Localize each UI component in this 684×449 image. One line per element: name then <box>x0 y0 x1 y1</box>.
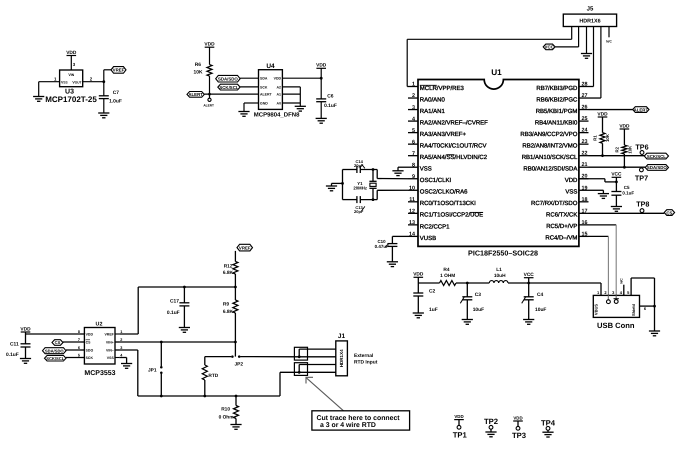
svg-text:MCP3553: MCP3553 <box>84 370 115 377</box>
svg-text:ALERT: ALERT <box>260 93 273 97</box>
svg-text:TP7: TP7 <box>635 173 648 182</box>
svg-text:USB Conn: USB Conn <box>597 321 635 330</box>
svg-text:SCK/SCL: SCK/SCL <box>46 356 65 361</box>
svg-text:8: 8 <box>412 162 415 168</box>
svg-text:C2: C2 <box>429 289 436 295</box>
svg-text:VCC: VCC <box>545 45 555 50</box>
svg-text:a 3 or 4 wire RTD: a 3 or 4 wire RTD <box>320 422 376 429</box>
svg-text:RB1/AN10/SCK/SCL: RB1/AN10/SCK/SCL <box>522 154 578 161</box>
svg-text:HDR1X6: HDR1X6 <box>579 19 600 25</box>
svg-text:6.8K: 6.8K <box>223 309 234 315</box>
svg-text:0.1uF: 0.1uF <box>324 103 337 109</box>
svg-text:1.0uF: 1.0uF <box>109 99 122 105</box>
svg-text:24: 24 <box>582 128 588 134</box>
svg-text:PIC18F2550–SOIC28: PIC18F2550–SOIC28 <box>468 248 538 257</box>
svg-text:VDD: VDD <box>274 77 282 81</box>
svg-text:VIN: VIN <box>68 73 74 77</box>
svg-text:ALERT: ALERT <box>634 107 649 112</box>
svg-text:10K: 10K <box>194 69 203 75</box>
svg-text:SDO: SDO <box>86 348 94 352</box>
svg-text:J1: J1 <box>338 333 346 340</box>
svg-text:12: 12 <box>409 209 415 215</box>
svg-text:15: 15 <box>582 231 588 237</box>
svg-text:C7: C7 <box>113 90 120 96</box>
svg-text:J5: J5 <box>587 6 594 13</box>
svg-text:RC6/TX/CK: RC6/TX/CK <box>546 212 577 219</box>
svg-text:10K: 10K <box>627 145 632 154</box>
svg-text:4: 4 <box>412 116 415 122</box>
svg-text:RA1/AN1: RA1/AN1 <box>420 108 446 115</box>
svg-text:10uF: 10uF <box>473 307 484 313</box>
svg-text:C17: C17 <box>170 298 179 304</box>
svg-text:ALERT: ALERT <box>203 103 214 107</box>
svg-text:16: 16 <box>582 220 588 226</box>
svg-text:TP8: TP8 <box>636 199 649 208</box>
svg-text:0.1uF: 0.1uF <box>167 310 180 316</box>
svg-text:U1: U1 <box>491 68 502 77</box>
svg-text:25: 25 <box>582 116 588 122</box>
svg-text:1uF: 1uF <box>429 307 438 313</box>
svg-text:VREF: VREF <box>239 245 251 250</box>
svg-text:10uF: 10uF <box>535 307 546 313</box>
svg-text:6: 6 <box>412 139 415 145</box>
svg-text:VDD: VDD <box>454 414 463 419</box>
svg-text:MCP1702T-25: MCP1702T-25 <box>45 95 97 104</box>
svg-text:13: 13 <box>409 220 415 226</box>
svg-text:R1: R1 <box>592 135 597 141</box>
svg-text:C4: C4 <box>537 292 544 298</box>
svg-text:RC4/D–/VM: RC4/D–/VM <box>545 235 577 242</box>
svg-text:17: 17 <box>582 208 588 214</box>
svg-text:CS: CS <box>86 340 92 344</box>
svg-text:OSC2/CLKO/RA6: OSC2/CLKO/RA6 <box>420 189 468 196</box>
svg-text:18: 18 <box>582 197 588 203</box>
svg-text:RC7/RX/DT/SDO: RC7/RX/DT/SDO <box>531 200 578 207</box>
svg-text:VREF: VREF <box>113 68 125 73</box>
svg-text:0.1uF: 0.1uF <box>622 191 634 196</box>
svg-text:OSC1/CLKI: OSC1/CLKI <box>420 177 452 184</box>
svg-text:VSS: VSS <box>420 166 432 173</box>
svg-text:N/C: N/C <box>606 39 612 43</box>
svg-text:0.1uF: 0.1uF <box>6 352 19 358</box>
svg-text:A1: A1 <box>277 93 282 97</box>
svg-text:A0: A0 <box>277 101 282 105</box>
svg-text:RB7/KBI3/PGD: RB7/KBI3/PGD <box>536 85 578 92</box>
svg-text:10: 10 <box>409 185 415 191</box>
svg-text:SCK/SCL: SCK/SCL <box>219 85 238 90</box>
svg-text:RB3/AN9/CCP2/VPO: RB3/AN9/CCP2/VPO <box>520 131 577 138</box>
svg-text:VSS: VSS <box>61 80 68 84</box>
svg-text:JP2: JP2 <box>235 361 244 367</box>
svg-text:R12: R12 <box>224 263 233 269</box>
svg-text:26: 26 <box>582 105 588 111</box>
svg-text:RB6/KBI2/PGC: RB6/KBI2/PGC <box>536 96 578 103</box>
svg-text:CS: CS <box>55 340 61 345</box>
svg-text:VDD: VDD <box>86 332 94 336</box>
svg-text:19: 19 <box>582 185 588 191</box>
svg-text:HDR1X4: HDR1X4 <box>339 349 344 367</box>
svg-text:RB5/KBI1/PGM: RB5/KBI1/PGM <box>536 108 578 115</box>
svg-text:Cut trace here to connect: Cut trace here to connect <box>317 415 401 422</box>
svg-text:SCK: SCK <box>260 85 268 89</box>
svg-text:21: 21 <box>582 162 588 168</box>
svg-text:RTD Input: RTD Input <box>354 360 378 366</box>
svg-text:27: 27 <box>582 93 588 99</box>
svg-text:RA3/AN3/VREF+: RA3/AN3/VREF+ <box>420 131 467 138</box>
svg-text:22: 22 <box>582 151 588 157</box>
svg-text:C6: C6 <box>327 94 334 100</box>
svg-text:External: External <box>354 353 374 359</box>
svg-text:CS: CS <box>666 210 672 215</box>
svg-text:R10: R10 <box>221 406 230 412</box>
svg-text:VUSB: VUSB <box>420 235 436 242</box>
svg-text:9: 9 <box>412 174 415 180</box>
svg-text:7: 7 <box>412 151 415 157</box>
svg-text:SCK: SCK <box>86 356 94 360</box>
svg-text:N/C: N/C <box>620 278 624 284</box>
svg-text:VIN+: VIN+ <box>106 340 114 344</box>
svg-text:10K: 10K <box>605 133 610 142</box>
svg-text:SDA/SDO: SDA/SDO <box>218 76 238 81</box>
svg-text:A2: A2 <box>277 85 282 89</box>
svg-text:23: 23 <box>582 139 588 145</box>
svg-text:ALERT: ALERT <box>188 92 203 97</box>
svg-text:VDD: VDD <box>565 177 578 184</box>
svg-text:RC5/D+/VP: RC5/D+/VP <box>546 223 577 230</box>
svg-text:R6: R6 <box>195 62 202 68</box>
svg-text:TP6: TP6 <box>635 142 648 151</box>
svg-text:11: 11 <box>409 197 415 203</box>
svg-text:RC0/T1OSO/T13CKI: RC0/T1OSO/T13CKI <box>420 200 476 207</box>
svg-text:RB2/AN8/INT2/VMO: RB2/AN8/INT2/VMO <box>522 142 577 149</box>
svg-text:14: 14 <box>409 232 415 238</box>
svg-text:C5: C5 <box>624 185 630 190</box>
svg-text:RA4/T0CKI/C1OUT/RCV: RA4/T0CKI/C1OUT/RCV <box>420 143 487 150</box>
svg-text:RA2/AN2/VREF–/CVREF: RA2/AN2/VREF–/CVREF <box>420 119 488 126</box>
svg-text:28: 28 <box>582 82 588 88</box>
svg-text:VBUS: VBUS <box>594 304 599 315</box>
svg-text:VSS: VSS <box>565 189 577 196</box>
svg-text:0 Ohm: 0 Ohm <box>219 414 234 420</box>
svg-text:VOUT: VOUT <box>72 80 81 84</box>
svg-text:SCK/SCL: SCK/SCL <box>647 154 666 159</box>
svg-text:20MHz: 20MHz <box>353 185 367 190</box>
svg-text:VREF: VREF <box>104 332 114 336</box>
svg-text:3: 3 <box>412 105 415 111</box>
svg-text:MCP9804_DFN8: MCP9804_DFN8 <box>254 112 300 119</box>
svg-text:RB4/AN11/KBI0: RB4/AN11/KBI0 <box>535 119 578 126</box>
svg-text:RB0/AN12/SDI/SDA: RB0/AN12/SDI/SDA <box>523 166 577 173</box>
svg-text:TP3: TP3 <box>512 431 526 440</box>
svg-text:U4: U4 <box>266 63 275 70</box>
svg-text:Shield: Shield <box>631 303 636 316</box>
svg-text:TP1: TP1 <box>453 431 468 440</box>
svg-text:2: 2 <box>412 93 415 99</box>
svg-text:VSS: VSS <box>107 356 115 360</box>
svg-text:VIN–: VIN– <box>106 348 114 352</box>
svg-text:6.8K: 6.8K <box>223 270 234 276</box>
svg-text:GND: GND <box>260 101 268 105</box>
svg-text:C3: C3 <box>475 292 482 298</box>
svg-text:RA0/AN0: RA0/AN0 <box>420 96 446 103</box>
svg-text:C11: C11 <box>10 341 19 347</box>
svg-text:R9: R9 <box>223 301 229 307</box>
svg-text:8: 8 <box>78 330 80 334</box>
svg-text:1 OHM: 1 OHM <box>440 273 455 279</box>
svg-text:MCLR/VPP/RE3: MCLR/VPP/RE3 <box>420 85 465 92</box>
svg-text:R4: R4 <box>443 267 449 273</box>
svg-text:U2: U2 <box>96 321 103 327</box>
svg-text:VDD: VDD <box>513 415 522 420</box>
svg-text:R2: R2 <box>615 146 620 152</box>
svg-text:L1: L1 <box>496 267 502 273</box>
svg-text:SDA/SDO: SDA/SDO <box>647 165 667 170</box>
svg-text:JP1: JP1 <box>148 368 157 374</box>
svg-text:RTD: RTD <box>208 373 218 379</box>
svg-text:SDA/SDO: SDA/SDO <box>45 348 65 353</box>
svg-text:SDA: SDA <box>260 77 268 81</box>
svg-text:RC2/CCP1: RC2/CCP1 <box>420 223 450 230</box>
svg-text:10uH: 10uH <box>494 273 506 279</box>
svg-text:5: 5 <box>412 128 415 134</box>
